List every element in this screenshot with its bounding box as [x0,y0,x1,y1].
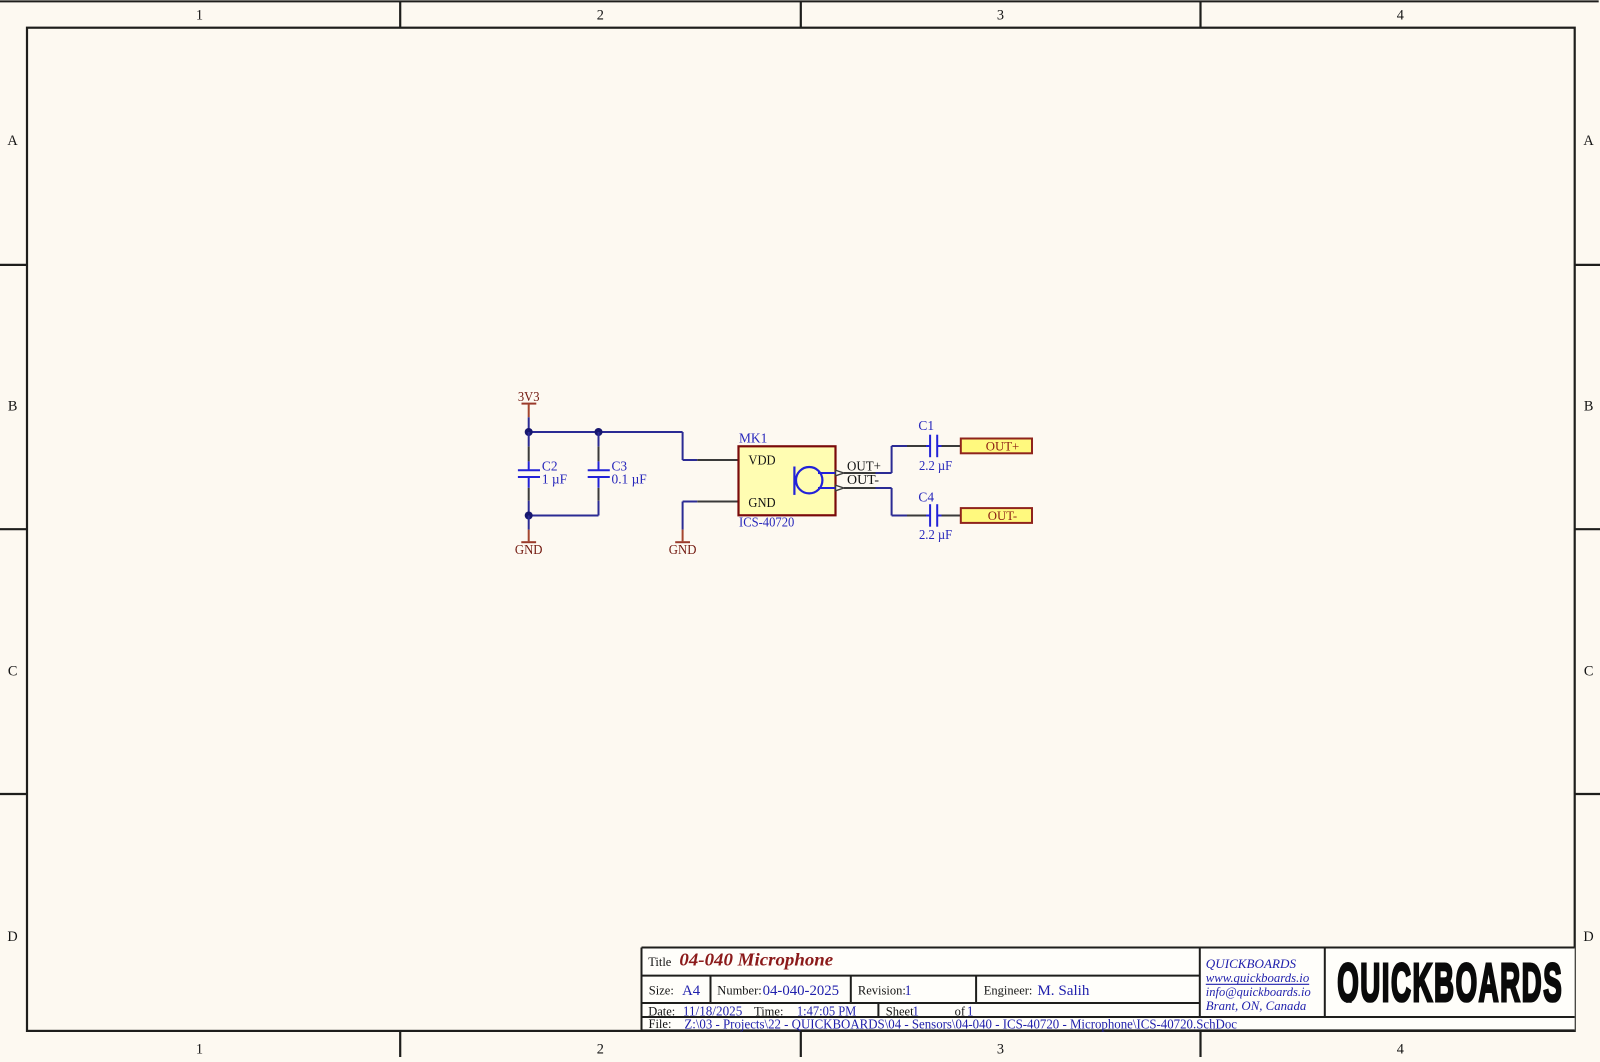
svg-text:GND: GND [515,542,543,557]
svg-text:A: A [1583,133,1594,149]
svg-text:QUICKBOARDS: QUICKBOARDS [1206,957,1297,971]
svg-text:Z:\03 - Projects\22 - QUICKBOA: Z:\03 - Projects\22 - QUICKBOARDS\04 - S… [684,1016,1237,1031]
svg-text:D: D [1583,929,1593,945]
svg-text:1 µF: 1 µF [542,472,567,487]
svg-text:M. Salih: M. Salih [1037,983,1089,999]
svg-text:OUT-: OUT- [847,472,879,487]
svg-text:www.quickboards.io: www.quickboards.io [1206,971,1309,985]
svg-text:Engineer:: Engineer: [984,983,1033,997]
svg-text:1: 1 [905,983,912,999]
svg-text:A: A [7,133,18,149]
svg-text:C: C [1584,664,1594,680]
svg-text:3V3: 3V3 [518,389,540,404]
svg-text:0.1 µF: 0.1 µF [612,472,647,487]
svg-text:Size:: Size: [649,983,674,997]
svg-text:04-040 Microphone: 04-040 Microphone [679,950,833,970]
svg-text:A4: A4 [682,983,700,999]
svg-text:C1: C1 [918,418,934,433]
svg-text:GND: GND [748,495,776,510]
svg-text:File:: File: [649,1017,672,1031]
svg-text:ICS-40720: ICS-40720 [739,515,795,530]
svg-text:4: 4 [1397,7,1404,23]
svg-text:OUT+: OUT+ [986,440,1020,454]
svg-text:1: 1 [196,1041,203,1057]
svg-text:2: 2 [597,7,604,23]
svg-text:C4: C4 [918,489,934,504]
svg-text:Brant, ON, Canada: Brant, ON, Canada [1206,999,1307,1013]
svg-text:B: B [1584,398,1594,414]
svg-text:3: 3 [997,1041,1004,1057]
svg-text:Title: Title [648,955,672,969]
svg-text:D: D [7,929,17,945]
svg-text:OUT-: OUT- [988,509,1017,523]
svg-text:04-040-2025: 04-040-2025 [763,983,840,999]
svg-text:3: 3 [997,7,1004,23]
svg-text:VDD: VDD [748,452,776,467]
svg-text:Number:: Number: [717,983,761,997]
svg-text:2.2 µF: 2.2 µF [919,527,952,542]
svg-text:2.2 µF: 2.2 µF [919,458,952,473]
svg-text:4: 4 [1397,1041,1404,1057]
svg-text:C: C [8,664,18,680]
svg-text:info@quickboards.io: info@quickboards.io [1206,985,1311,999]
svg-text:1: 1 [196,7,203,23]
svg-text:Revision:: Revision: [858,983,906,997]
svg-text:GND: GND [669,542,697,557]
svg-text:2: 2 [597,1041,604,1057]
svg-text:MK1: MK1 [739,431,767,446]
svg-text:B: B [8,398,18,414]
